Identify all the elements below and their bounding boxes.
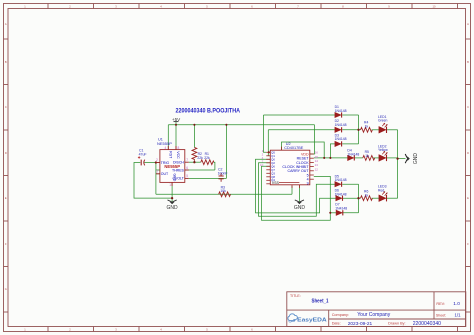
diode D5 1N4148: [335, 174, 347, 186]
wire U1 GND stem: [171, 182, 173, 201]
resistor R1 22k (horizontal): [201, 160, 214, 165]
svg-text:10k: 10k: [220, 189, 226, 193]
svg-text:D: D: [5, 151, 7, 155]
diode D7 1N4148: [335, 203, 347, 216]
svg-text:+5V: +5V: [172, 117, 181, 122]
wire join column D1-D3: [358, 115, 360, 144]
svg-text:1N4148: 1N4148: [335, 178, 347, 182]
svg-text:REV:: REV:: [436, 302, 445, 306]
svg-text:Q4: Q4: [271, 178, 275, 182]
capacitor C1 47uF: [138, 149, 147, 166]
wire LED3 cathode to right rail: [387, 197, 398, 199]
LED LED1 Green: [378, 115, 388, 133]
svg-text:Date:: Date:: [332, 322, 341, 326]
diode D3 1N4148: [335, 133, 347, 146]
node RESET riser: [323, 157, 325, 159]
svg-text:Q7: Q7: [271, 168, 275, 172]
node U2 VSS: [298, 181, 300, 183]
op... IC U1 NE555P: [156, 137, 189, 187]
wire OUT stub: [156, 173, 160, 175]
wire wrapA: U2 row3 under U2 to D6: [256, 159, 336, 213]
wire join column D5-D7: [358, 184, 360, 213]
svg-text:OUT: OUT: [161, 172, 169, 176]
svg-text:2023-09-21: 2023-09-21: [348, 321, 373, 327]
WIRES (green nets): [134, 115, 406, 220]
wire +5V stem: [175, 122, 177, 125]
svg-text:Your Company: Your Company: [357, 312, 390, 318]
svg-text:THRES: THRES: [172, 168, 185, 172]
node D7 branch: [329, 212, 331, 214]
wire RESET pin to D4 anode: [314, 157, 348, 159]
svg-text:B: B: [5, 60, 7, 64]
svg-text:1k: 1k: [365, 154, 369, 158]
svg-text:1k: 1k: [365, 193, 369, 197]
svg-text:GND: GND: [413, 153, 419, 165]
svg-text:DISCH: DISCH: [173, 161, 184, 165]
wire wrapC: U2 row5 under U2 up right side: [262, 166, 331, 220]
wire R3 net up to U2 bottom: [291, 186, 293, 194]
diode D2 1N4148: [335, 119, 347, 132]
wire R4 to LED1: [372, 129, 379, 131]
ground (under U2): [295, 200, 304, 202]
svg-text:1.0: 1.0: [453, 301, 460, 307]
resistor R3 10k: [219, 192, 231, 197]
wire D1 cathode to join column: [342, 114, 358, 116]
svg-text:GND: GND: [294, 205, 306, 211]
svg-text:9: 9: [307, 181, 309, 185]
LED LED2 Yellow: [378, 144, 388, 161]
wire U2 pin Q(row1) up to D1: [264, 115, 267, 152]
node D5-D7 join / R6: [357, 197, 359, 199]
svg-text:1: 1: [169, 183, 171, 187]
svg-text:Q5: Q5: [271, 151, 275, 155]
power +5V: [172, 117, 181, 122]
svg-text:3: 3: [156, 170, 158, 174]
svg-text:1N4148: 1N4148: [335, 123, 347, 127]
resistor R4 1k: [361, 127, 373, 132]
svg-text:7: 7: [186, 158, 188, 162]
wire CVOLT line: [189, 177, 227, 179]
wire R6 to LED3: [372, 197, 379, 199]
diode D4 1N4148: [347, 149, 359, 161]
wire C1 right lead to TRIG: [144, 162, 160, 164]
node U2 pin1: [268, 151, 270, 153]
wire VDD drop from rail: [310, 125, 315, 154]
svg-text:C: C: [467, 105, 469, 109]
node rail/C2 drop: [225, 124, 227, 126]
node DISCH/R2/R1: [193, 161, 195, 163]
svg-text:Q3: Q3: [271, 172, 275, 176]
svg-text:1/1: 1/1: [455, 313, 462, 318]
svg-text:12: 12: [315, 167, 319, 171]
svg-text:TRIG: TRIG: [161, 161, 170, 165]
wire U1 pin4 to rail: [167, 125, 169, 150]
wire D7 cathode to join column: [342, 212, 358, 214]
svg-text:8: 8: [178, 146, 180, 150]
svg-text:1N4148: 1N4148: [335, 109, 347, 113]
svg-text:5: 5: [186, 174, 188, 178]
svg-text:Green: Green: [378, 119, 388, 123]
svg-text:1N4148: 1N4148: [347, 152, 359, 156]
svg-text:Sheet:: Sheet:: [436, 313, 446, 317]
wire U1 pin8 to rail: [175, 125, 177, 150]
svg-text:VCC: VCC: [176, 151, 180, 159]
wire LED2 cathode to right rail: [387, 157, 398, 159]
svg-text:Company:: Company:: [332, 313, 349, 317]
svg-text:2200040340: 2200040340: [413, 321, 441, 327]
LED LED3 Red: [378, 185, 387, 202]
capacitor C2 100nF: [218, 168, 228, 182]
svg-text:RST: RST: [169, 151, 173, 159]
svg-text:A: A: [467, 22, 469, 26]
wire D4 cathode to R5: [355, 157, 363, 159]
wire R5 to LED2: [373, 157, 379, 159]
wire R2 bottom to DISCH junction: [193, 161, 195, 162]
svg-text:Q2: Q2: [271, 161, 275, 165]
wire wrapB: U2 row4 under U2 to D5: [259, 163, 335, 217]
wire D1 anode line: [264, 114, 335, 116]
node GND net / U1 GND: [171, 197, 173, 199]
wire R1 right jog to THRES line: [214, 162, 215, 170]
TITLE BLOCK: [287, 292, 466, 327]
svg-text:Sheet_1: Sheet_1: [312, 299, 329, 305]
resistor R6 1k: [361, 196, 373, 201]
svg-text:Red: Red: [378, 188, 384, 192]
svg-text:6: 6: [186, 166, 188, 170]
resistor R5 1k: [363, 156, 375, 161]
svg-text:22k: 22k: [204, 156, 210, 160]
resistor R2 22k (vertical): [192, 147, 197, 161]
wire U2 pin Q(row2) up to D2: [267, 130, 269, 156]
svg-text:1N4148: 1N4148: [335, 137, 347, 141]
wire wrapC branch to D7 anode: [330, 212, 336, 214]
diode D1 1N4148: [335, 105, 347, 117]
wire C1 left loop to GND net: [134, 163, 172, 199]
wire D3 cathode to join column: [342, 143, 358, 145]
node D3 riser: [329, 157, 331, 159]
node right rail GND: [396, 157, 398, 159]
junction dots: [155, 124, 399, 214]
wire D2 anode line: [268, 129, 335, 131]
ground (under U1): [168, 200, 177, 202]
svg-text:GND: GND: [172, 174, 176, 182]
wire DISCH pin to junction: [189, 161, 201, 163]
ground (right, rotated): [405, 154, 410, 163]
svg-text:EasyEDA: EasyEDA: [297, 318, 327, 324]
wire U2 top pin net to D4 (over U2): [282, 142, 325, 158]
diode D6 1N4148: [335, 189, 347, 201]
svg-text:TITLE:: TITLE:: [290, 294, 301, 298]
wire rail to R2 top: [193, 125, 195, 148]
svg-text:22k: 22k: [197, 156, 203, 160]
svg-text:47uF: 47uF: [139, 153, 147, 157]
svg-text:1k: 1k: [365, 124, 369, 128]
wire D3 branch riser: [330, 144, 335, 158]
svg-text:Drawn By:: Drawn By:: [388, 322, 406, 326]
svg-text:1N4148: 1N4148: [335, 207, 347, 211]
wire +5V rail: [168, 124, 314, 126]
svg-text:2200040340 B.POOJITHA: 2200040340 B.POOJITHA: [176, 107, 241, 114]
node rail/R2: [193, 124, 195, 126]
svg-text:E: E: [467, 196, 469, 200]
node D1-D3 join / R4: [357, 129, 359, 131]
svg-text:D: D: [467, 151, 469, 155]
svg-text:Q1: Q1: [271, 154, 275, 158]
svg-text:Yellow: Yellow: [378, 148, 388, 152]
svg-text:Q0: Q0: [271, 158, 275, 162]
svg-text:2: 2: [156, 158, 158, 162]
svg-text:A: A: [5, 22, 7, 26]
svg-text:100nF: 100nF: [218, 171, 228, 175]
wire right rail: [397, 130, 399, 198]
svg-text:4: 4: [165, 146, 167, 150]
svg-text:10: 10: [260, 163, 264, 167]
wire D2 cathode / R4 row: [342, 129, 360, 131]
wire D6 cathode / R6 row: [342, 197, 360, 199]
EasyEDA logo: [288, 314, 328, 324]
svg-text:B: B: [467, 60, 469, 64]
wire U2 VSS stem to GND: [298, 183, 300, 202]
node TRIG: [155, 161, 157, 163]
node +5V/pin8: [175, 124, 177, 126]
svg-text:Q6: Q6: [271, 165, 275, 169]
svg-text:C: C: [5, 105, 7, 109]
svg-text:CD4017BE: CD4017BE: [284, 146, 303, 150]
wire LED1 cathode to right rail: [387, 129, 398, 131]
svg-text:GND: GND: [167, 205, 179, 211]
wire R3 net horizontal: [156, 193, 292, 195]
wire rail drop to CVOLT line: [225, 125, 227, 179]
wire right rail to GND: [398, 158, 406, 160]
wire D5 cathode to join column: [342, 183, 358, 185]
svg-text:E: E: [5, 196, 7, 200]
wire TRIG-THRES line (passes under U1 body): [156, 169, 215, 171]
IC U2 CD4017BE: [260, 142, 318, 188]
wire TRIG vertical down to R3 net: [155, 163, 157, 195]
svg-text:G: G: [5, 287, 7, 291]
svg-text:1N4148: 1N4148: [335, 192, 347, 196]
